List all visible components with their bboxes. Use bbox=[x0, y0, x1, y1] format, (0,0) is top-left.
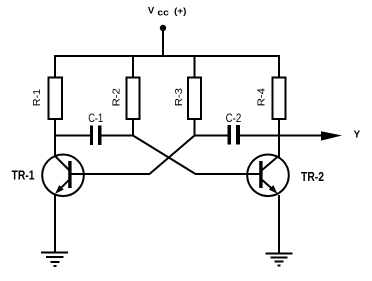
wire cross-couple R-2 to TR-2 base (diagonal) bbox=[133, 136, 196, 175]
ground left bbox=[41, 252, 68, 266]
svg-text:R-3: R-3 bbox=[173, 88, 185, 106]
svg-text:TR-1: TR-1 bbox=[12, 169, 35, 183]
ground right bbox=[266, 253, 293, 265]
resistor R-3 bbox=[188, 78, 201, 120]
transistor TR-2 bbox=[247, 155, 289, 197]
output arrowhead Y bbox=[321, 131, 342, 140]
svg-text:V: V bbox=[148, 5, 155, 16]
label Vcc (+) bbox=[148, 5, 187, 17]
wire R-2 bottom stub bbox=[132, 119, 134, 136]
wire R-4 top bbox=[278, 55, 280, 78]
wire R-1 bottom to TR-1 collector bbox=[54, 119, 56, 157]
svg-text:R-2: R-2 bbox=[111, 88, 123, 106]
wire C-1 to R-2 bottom bbox=[101, 135, 134, 137]
wire C-2 to Y output bbox=[240, 135, 328, 137]
capacitor C-1 bbox=[90, 126, 101, 146]
Vcc terminal wire bbox=[162, 28, 164, 57]
resistor R-2 bbox=[127, 78, 140, 120]
wire R-2 top bbox=[132, 56, 134, 78]
svg-text:cc: cc bbox=[157, 7, 169, 17]
node Vcc terminal dot bbox=[160, 25, 166, 31]
svg-text:R-4: R-4 bbox=[256, 88, 268, 106]
resistor R-1 bbox=[49, 78, 63, 120]
transistor TR-1 bbox=[42, 155, 84, 197]
svg-text:TR-2: TR-2 bbox=[301, 170, 324, 184]
wire R-3 top bbox=[194, 56, 196, 78]
wire R-3 bottom to C-2 bbox=[194, 135, 229, 137]
wire TR-1 base horizontal bbox=[71, 173, 150, 175]
svg-text:(+): (+) bbox=[174, 6, 186, 17]
svg-text:R-1: R-1 bbox=[31, 89, 43, 107]
wire node A to C-1 bbox=[54, 135, 91, 137]
wire R-1 top bbox=[54, 55, 56, 78]
svg-text:C-2: C-2 bbox=[226, 111, 242, 125]
wire Vcc bus bbox=[55, 55, 281, 57]
wire R-3 bottom stub bbox=[194, 119, 196, 136]
resistor R-4 bbox=[273, 78, 286, 120]
svg-text:Y: Y bbox=[354, 130, 361, 141]
wire TR-2 emitter to ground bbox=[278, 195, 280, 253]
wire R-4 bottom to TR-2 collector bbox=[278, 119, 280, 157]
wire TR-1 emitter to ground bbox=[54, 195, 56, 252]
capacitor C-2 bbox=[228, 125, 240, 144]
wire cross-couple R-3 to TR-1 base (diagonal) bbox=[150, 136, 195, 175]
wire TR-2 base horizontal bbox=[195, 173, 261, 175]
svg-text:C-1: C-1 bbox=[88, 111, 103, 125]
